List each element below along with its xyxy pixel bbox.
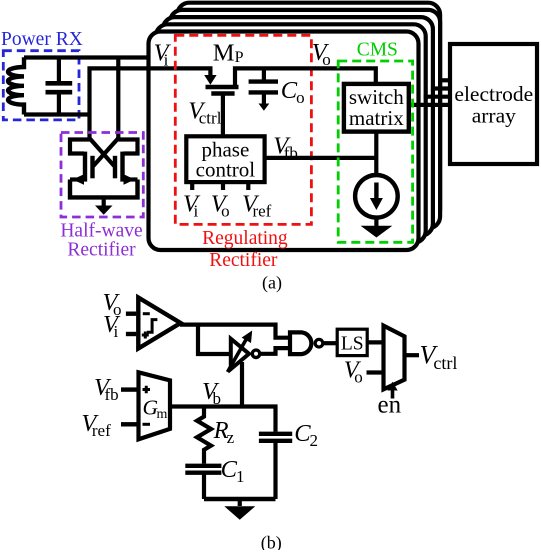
NAND gate U3	[290, 332, 311, 354]
capacitor tank bottom plate	[46, 90, 73, 95]
stacked channel box 2	[156, 24, 426, 243]
wire cross-couple diagonal left-to-right-gate	[90, 138, 115, 166]
wire bus line 1 to electrode array	[438, 78, 451, 82]
svg-text:array: array	[472, 103, 516, 127]
Regulating Rectifier dashed box	[175, 35, 311, 224]
transistor M2 source arrow	[124, 174, 136, 185]
wire C2 to rail	[273, 441, 277, 499]
capacitor C2 bottom plate	[259, 439, 292, 443]
inverter U2 (variable delay)	[231, 339, 249, 369]
wire LS to mux	[367, 340, 383, 344]
wire MP gate to phase control	[221, 96, 225, 137]
transistor M1 source arrow	[73, 174, 85, 185]
svg-text:Regulating: Regulating	[202, 228, 288, 249]
wire comparator output to NAND top input	[180, 325, 290, 338]
ground rectifier	[95, 206, 113, 215]
wire C1 to rail	[202, 473, 206, 499]
op-amp Gm	[139, 372, 171, 439]
wire Vref stub	[121, 422, 137, 426]
ground Co arrow shaft	[262, 92, 266, 104]
comparator U1	[138, 298, 180, 349]
transistor M2 drain wire	[118, 140, 137, 154]
capacitor Co stub	[262, 68, 266, 81]
wire cross-couple diagonal right-to-left-gate	[93, 138, 118, 166]
resistor Rz	[197, 407, 211, 464]
wire mux output	[405, 353, 420, 357]
transistor M2 gate bar	[113, 156, 117, 179]
wire bus line 3 to electrode array	[424, 95, 451, 99]
Gm plus sign	[143, 388, 151, 391]
wire capacitor stubs	[57, 58, 61, 84]
ground (b)	[224, 506, 255, 519]
capacitor Co top plate	[249, 79, 278, 83]
wire bus line 2 to electrode array	[431, 86, 451, 90]
inductor L1	[8, 57, 24, 114]
capacitor C1 bottom plate	[185, 471, 221, 475]
svg-text:en: en	[378, 392, 402, 419]
wire NAND to LS	[324, 341, 337, 345]
wire rectifier source rail	[70, 180, 138, 198]
wire tank top to box	[24, 55, 150, 59]
transistor MP left terminal	[208, 68, 212, 76]
stacked channel box 4	[170, 10, 440, 229]
Half-wave Rectifier dashed box	[61, 133, 143, 218]
capacitor C2 top plate	[259, 432, 292, 436]
svg-text:CMS: CMS	[357, 40, 398, 61]
wire comparator input stubs	[126, 312, 136, 316]
wire phase control input stubs	[190, 182, 194, 190]
capacitor tank top plate	[46, 81, 73, 86]
wire MP right terminal and Vo wire to switch matrix	[235, 68, 376, 87]
capacitor C1 top plate	[185, 464, 221, 468]
svg-text:Rectifier: Rectifier	[67, 239, 136, 260]
ground CMS	[361, 226, 393, 238]
transistor M1 source wire	[70, 177, 84, 181]
NAND gate U3 bubble	[315, 339, 323, 347]
ground Co arrow head	[259, 104, 270, 111]
wire ground rail	[204, 497, 276, 501]
switch matrix box	[344, 84, 409, 132]
transistor MP terminal arrow	[204, 75, 216, 85]
wire inverter output to NAND bottom input	[261, 348, 290, 354]
inverter U2 output bubble	[252, 350, 259, 357]
svg-text:LS: LS	[341, 334, 364, 355]
level shifter LS box	[337, 329, 367, 355]
svg-text:electrode: electrode	[454, 82, 533, 106]
wire en arrow	[391, 390, 395, 399]
wire tank bottom	[24, 112, 90, 116]
wire Vo to mux	[367, 370, 384, 374]
electrode array box	[450, 44, 537, 164]
wire top tap down to rectifier	[116, 58, 120, 140]
ground rectifier stub	[102, 197, 106, 206]
wire Vfb stub	[121, 387, 137, 391]
wire node Vi feed (tank bottom up and right to MP)	[90, 68, 213, 139]
CMS dashed box	[338, 61, 412, 242]
current source I1 circle	[355, 175, 398, 218]
ground stub (b)	[238, 499, 242, 506]
comparator hysteresis symbol	[147, 320, 158, 333]
current source I1 arrow	[374, 183, 378, 200]
capacitor Co bottom plate	[249, 90, 278, 94]
wire tap to delay inverter	[198, 325, 230, 354]
comparator plus sign	[142, 334, 149, 337]
svg-text:(b): (b)	[261, 532, 282, 550]
svg-text:control: control	[196, 158, 256, 182]
wire Gm output Vb node and C2 branch top	[170, 407, 276, 432]
wire Vfb from phase control to CMS	[265, 156, 376, 160]
transistor M2 source wire	[124, 177, 138, 181]
phase control box	[186, 136, 264, 182]
mux U4	[384, 326, 405, 390]
stacked channel box 3	[163, 17, 433, 236]
Power RX dashed box	[3, 51, 79, 120]
svg-text:(a): (a)	[262, 272, 282, 293]
comparator minus sign	[143, 312, 150, 315]
wire current source to ground	[374, 218, 378, 228]
svg-text:Rectifier: Rectifier	[209, 250, 278, 271]
transistor MP gate bar	[211, 91, 234, 95]
transistor MP channel bar	[206, 85, 239, 89]
wire inverter control to Vb	[240, 362, 244, 407]
Gm minus sign	[143, 423, 151, 426]
wire bus line 4 from switch matrix to electrode array	[409, 103, 451, 107]
transistor M1 channel bar	[83, 152, 87, 182]
transistor M1 gate bar	[90, 156, 94, 179]
svg-text:matrix: matrix	[349, 106, 404, 130]
stacked channel box 5 (backmost)	[177, 3, 440, 222]
transistor M1 drain wire	[70, 140, 90, 154]
svg-text:Power RX: Power RX	[1, 29, 83, 50]
wire switch matrix to current source	[374, 132, 378, 177]
transistor M2 channel bar	[120, 152, 124, 182]
inverter U2 variable arrow	[228, 337, 248, 372]
stacked channel box 1 (front)	[149, 32, 419, 251]
